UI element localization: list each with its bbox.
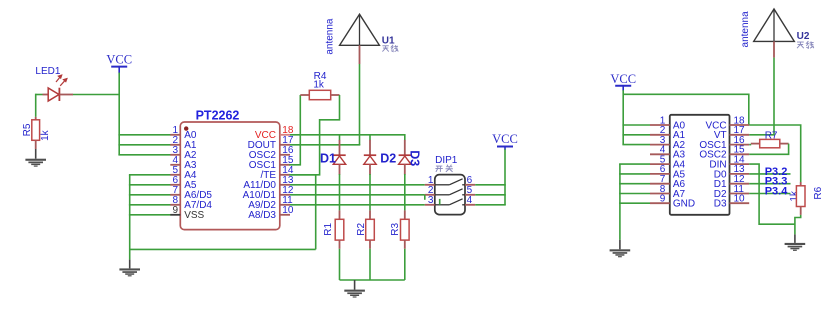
svg-text:A8/D3: A8/D3 (248, 210, 276, 221)
pin 13 stub + number + label (A11/D0) (243, 175, 293, 191)
resistor R4 (300, 90, 339, 99)
wire /TE (pin14) to ground rail (290, 175, 316, 250)
pin 10 stub + number + label (A8/D3) (248, 205, 294, 221)
wire A11/D0 (pin13) to DIP pin 1 (290, 184, 425, 186)
wire ground bus to pin 8 (right chip) (619, 193, 650, 195)
antenna label (right) (740, 11, 751, 48)
wire stub to D1 (339, 135, 341, 141)
wire stub to D2 (369, 135, 371, 141)
svg-text:D3: D3 (408, 150, 422, 166)
wire VCC to pin 1 (118, 134, 170, 136)
pin 18 stub + number + label (VCC) (255, 125, 294, 141)
svg-text:antenna: antenna (324, 18, 335, 55)
ground (below R6) (785, 243, 806, 251)
resistor R5 label (22, 123, 33, 136)
svg-text:1k: 1k (40, 129, 51, 141)
svg-text:9: 9 (172, 205, 178, 216)
wire D2 data (pin 11) stub (749, 193, 790, 195)
wire ground bus vertical (pins 5-9) (129, 175, 131, 260)
diode D3 label (rotated) (408, 150, 422, 166)
pin 6 stub + number + label (A5) (650, 164, 686, 180)
pin 2 stub + number + label (A1) (170, 135, 197, 151)
wire VCC vertical to pins 1-3 (118, 73, 120, 155)
wire DIN (pin14) down to R6/ground node (749, 164, 795, 224)
wire R1 to ground rail (339, 249, 341, 280)
wire VCC down DIP right side (504, 149, 506, 205)
resistor R6 value 1k (789, 190, 800, 202)
svg-text:GND: GND (673, 199, 695, 210)
wire VCC to pin 3 (right chip) (622, 144, 650, 146)
pin 17 stub + number + label (DOUT) (248, 135, 294, 151)
pin 8 stub + number + label (A7) (650, 184, 686, 200)
power VCC net (DIP common) (492, 132, 518, 150)
ground (left chip) (119, 268, 140, 276)
ground stem (right section left) (619, 240, 621, 249)
wire ground bus to pin 5 (right chip) (619, 163, 650, 165)
svg-text:10: 10 (282, 205, 294, 216)
wire LED to VCC line (73, 94, 120, 96)
pin 12 stub + number + label (D1) (714, 174, 749, 190)
pin 3 stub + number + label (A2) (170, 145, 197, 161)
pin 15 stub + number + label (OSC2) (699, 145, 749, 161)
svg-text:LED1: LED1 (35, 66, 60, 77)
wire VT (pin17) to antenna (749, 134, 775, 136)
wire fragment near DIP pin 3 (439, 199, 441, 205)
ground stem below R5 (35, 149, 37, 159)
wire VCC (pin18) right and down to R6 (749, 125, 801, 182)
ground (below R5) (25, 159, 46, 167)
antenna U2 (754, 9, 795, 135)
svg-text:D2: D2 (380, 152, 396, 166)
pin 1 stub + number + label (A0) (170, 125, 197, 141)
svg-text:U2: U2 (797, 31, 810, 42)
antenna U1 (340, 14, 380, 145)
svg-text:PT2262: PT2262 (196, 108, 240, 122)
pin 9 stub + number + label (VSS) (170, 205, 204, 221)
switch DIP1 body (435, 175, 465, 215)
svg-text:VSS: VSS (184, 210, 204, 221)
ground (right section) (610, 249, 631, 257)
pin 8 stub + number + label (A7/D4) (170, 195, 212, 211)
diode D3 (399, 140, 411, 175)
wire D2 to R2 (369, 174, 371, 210)
antenna label (left) (324, 18, 335, 55)
wire VCC to pin 1 (right chip) (622, 124, 650, 126)
wire ground bus to pin 8 (129, 204, 171, 206)
wire D0 data (pin 13) stub (749, 173, 790, 175)
pin 17 stub + number + label (VT) (714, 125, 749, 141)
wire D3 to R3 (404, 174, 406, 210)
diode D1 (333, 140, 345, 175)
resistor R5 (32, 117, 40, 149)
pin 14 stub + number + label (DIN) (709, 154, 749, 170)
diode D2 (364, 140, 376, 175)
ground (below R1-R3) (344, 290, 365, 298)
wire A9/D2 (pin11) to DIP pin 3 (290, 204, 425, 206)
ground stem (below chip) (129, 260, 131, 269)
pin 1 stub + number + label (A0) (650, 115, 686, 131)
wire DOUT (pin17) to antenna (290, 144, 360, 146)
pin 13 stub + number + label (D0) (714, 164, 749, 180)
pin 14 stub + number + label (/TE) (260, 165, 293, 181)
wire VCC rail from pin 18 (290, 135, 405, 141)
IC PT2262 pin-1 marker dot (184, 126, 188, 130)
svg-text:R1: R1 (323, 222, 334, 235)
wire ground bus to pin 6 (right chip) (619, 173, 650, 175)
svg-text:D3: D3 (714, 199, 727, 210)
resistor R6 label (813, 186, 824, 199)
switch DIP1 pole 1 (pins 1/6) (425, 175, 475, 186)
svg-text:1k: 1k (313, 79, 325, 90)
svg-text:DIP1: DIP1 (435, 155, 458, 166)
IC U3 (receiver) body (670, 115, 730, 215)
svg-text:antenna: antenna (740, 11, 751, 48)
wire ground bus vertical (right chip pins 5-9) (619, 164, 621, 240)
wire R4 right to OSC1 (pin15) (289, 95, 339, 175)
wire VCC to pin 2 (right chip) (622, 134, 650, 136)
wire ground bus to pin 7 (right chip) (619, 183, 650, 185)
antenna U2 chinese label 天线 (797, 41, 814, 48)
resistor R7 (751, 139, 789, 147)
wire DIP pin 6 to VCC (475, 184, 506, 186)
wire A10/D1 (pin12) to DIP pin 2 (290, 194, 425, 196)
wire VCC to pin 3 (118, 154, 170, 156)
svg-text:10: 10 (734, 194, 746, 205)
pin 3 stub + number + label (A2) (650, 135, 686, 151)
resistor R2 (366, 210, 375, 248)
svg-text:VCC: VCC (610, 72, 636, 86)
power VCC net (right section) (610, 72, 636, 91)
resistor R6 (796, 182, 805, 215)
antenna U1 chinese label 天线 (382, 45, 398, 52)
wire R6 bottom to ground (795, 215, 801, 235)
pin 16 stub + number + label (OSC1) (699, 135, 749, 151)
pin 6 stub + number + label (A5) (170, 175, 197, 191)
wire VCC feed to pin 18 (623, 94, 749, 125)
svg-text:3: 3 (428, 195, 434, 206)
switch DIP1 pole 2 (pins 2/5) (425, 185, 475, 196)
wire D1 data (pin 12) stub (749, 183, 790, 185)
ground stem (below R6) (794, 234, 796, 243)
resistor R5 value 1k (40, 129, 51, 141)
svg-text:D1: D1 (320, 152, 336, 166)
pin 10 stub + number + label (D3) (714, 194, 749, 210)
resistor R2 label (356, 222, 367, 235)
wire DIP pin 4 to VCC (475, 204, 506, 206)
switch DIP1 chinese label 开关 (435, 165, 452, 172)
pin 2 stub + number + label (A1) (650, 125, 686, 141)
wire ground rail to /TE (130, 248, 316, 250)
svg-text:9: 9 (660, 194, 666, 205)
pin 7 stub + number + label (A6/D5) (170, 185, 212, 201)
pin 11 stub + number + label (A9/D2) (248, 195, 293, 211)
wire VCC to pin 2 (118, 144, 170, 146)
pin 4 stub + number + label (A3) (170, 155, 197, 171)
ground stem (below R1-R3) (354, 280, 356, 290)
pin 5 stub + number + label (A4) (170, 165, 197, 181)
LED LED1 (35, 75, 73, 101)
wire OSC1 (pin16) to R7 (749, 144, 751, 146)
wire ground bus to pin 6 (129, 184, 171, 186)
pin 12 stub + number + label (A10/D1) (243, 185, 294, 201)
resistor R1 label (323, 222, 334, 235)
svg-text:R6: R6 (813, 186, 824, 199)
wire ground bus to pin 5 (129, 174, 171, 176)
IC PT2262 body (180, 122, 279, 230)
wire R2 to ground rail (369, 249, 371, 280)
pin 18 stub + number + label (VCC) (705, 115, 749, 131)
pin 5 stub + number + label (A4) (650, 154, 686, 170)
svg-text:VCC: VCC (106, 52, 132, 66)
wire R3 to ground rail (404, 249, 406, 280)
wire R7 right to OSC2 (pin15) (749, 144, 788, 155)
wire ground bus to pin 7 (129, 194, 171, 196)
pin 11 stub + number + label (D2) (714, 184, 749, 200)
resistor R3 label (390, 222, 401, 235)
switch DIP1 pole 3 (pins 3/4) (425, 195, 475, 206)
wire D1 to R1 (339, 174, 341, 210)
wire fragment near DIP pin 2 (424, 195, 426, 200)
wire ground collector rail (340, 279, 405, 281)
wire OSC2 (pin16) to R4 left (289, 95, 300, 165)
resistor R3 (401, 210, 410, 248)
power VCC net (left section) (106, 52, 132, 73)
svg-text:R3: R3 (390, 222, 401, 235)
wire ground bus to pin 9 (129, 214, 171, 216)
wire ground bus to pin 9 (right chip) (619, 202, 650, 204)
pin 15 stub + number + label (OSC1) (249, 155, 294, 171)
wire LED anode down to R5 (35, 94, 37, 117)
wire VCC vertical to pins 1-3 (622, 90, 624, 144)
pin 9 stub + number + label (GND) (650, 194, 695, 210)
pin 16 stub + number + label (OSC2) (249, 145, 294, 161)
svg-text:VCC: VCC (492, 132, 518, 146)
svg-text:4: 4 (467, 195, 473, 206)
svg-text:P3.4: P3.4 (765, 186, 789, 198)
pin 7 stub + number + label (A6) (650, 174, 686, 190)
wire DIP pin 5 to VCC (475, 194, 506, 196)
pin 4 stub + number + label (A3) (650, 145, 686, 161)
resistor R1 (335, 210, 344, 248)
